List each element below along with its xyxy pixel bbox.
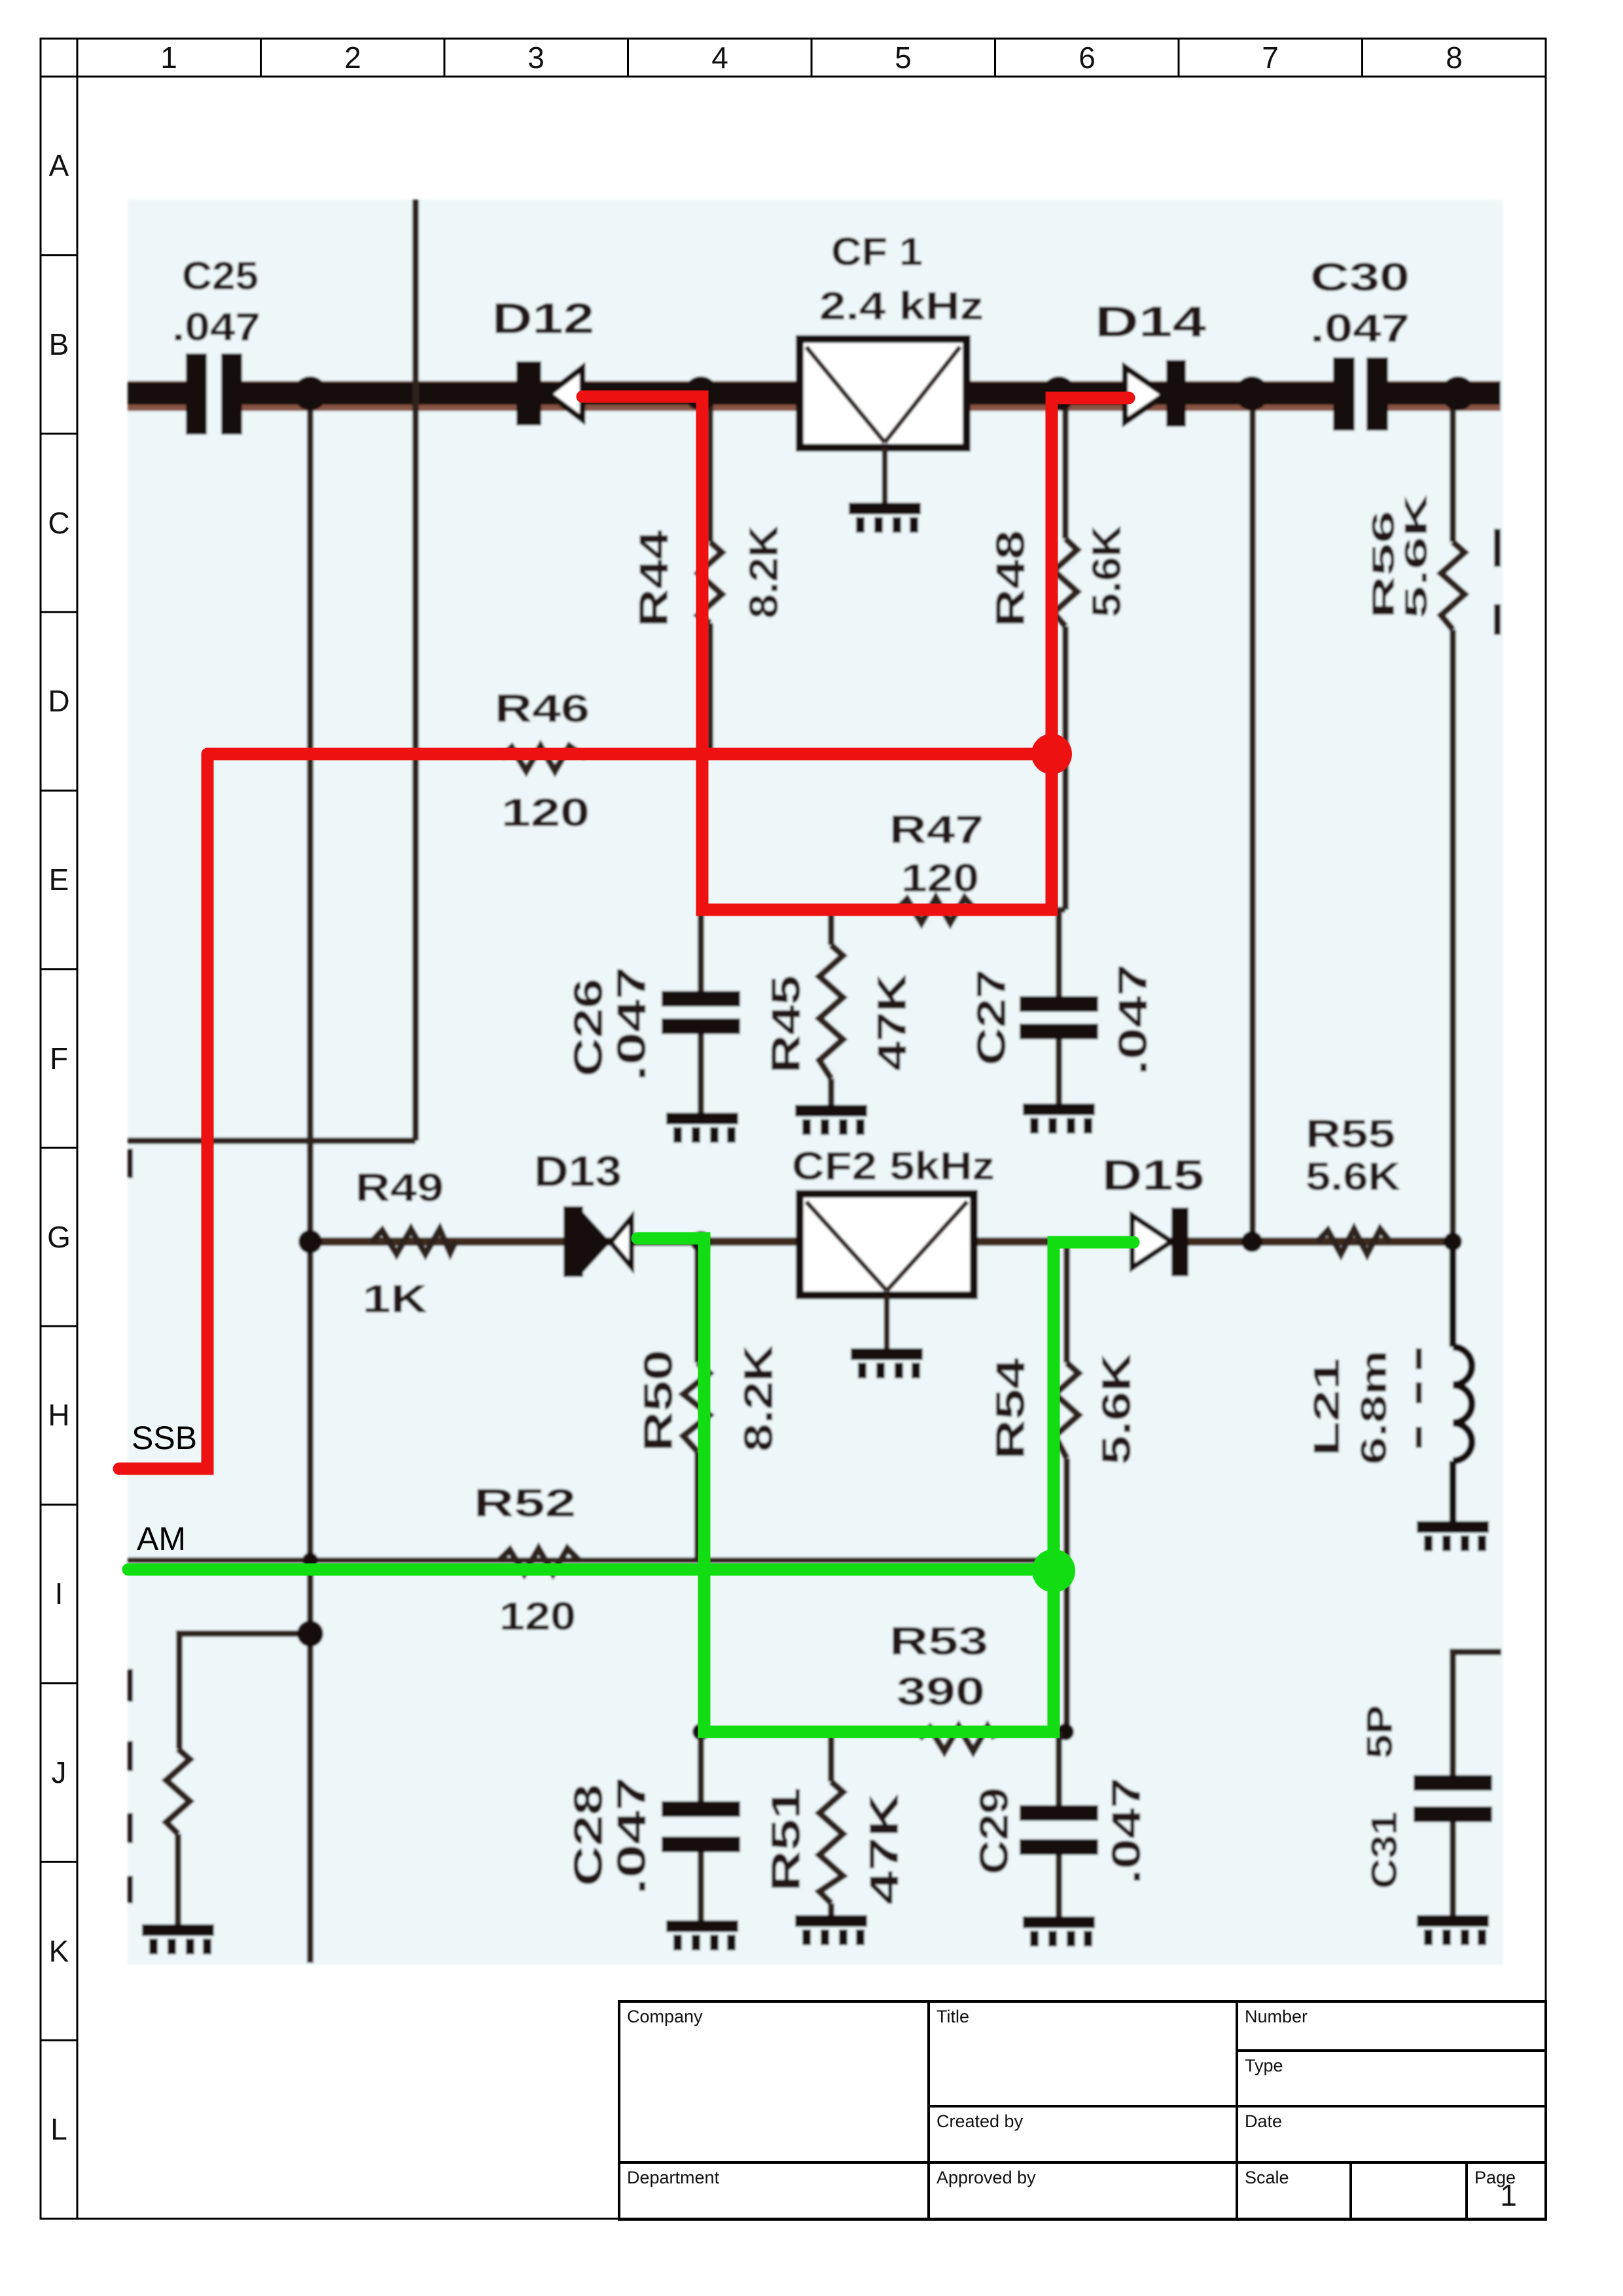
ground CF1 xyxy=(849,503,921,533)
label R49 xyxy=(355,1166,444,1321)
ground C27 xyxy=(1023,1103,1095,1134)
node SSB junction dot (red) xyxy=(1031,734,1072,774)
wire main IF signal row B xyxy=(128,382,1501,405)
diode D14 xyxy=(1125,360,1186,427)
svg-text:3: 3 xyxy=(527,41,544,75)
svg-text:F: F xyxy=(50,1041,68,1075)
wire vertical long column 2 xyxy=(412,200,419,1141)
label R54 rotated xyxy=(988,1354,1139,1465)
diode D12 xyxy=(516,361,582,425)
capacitor C26 with stems xyxy=(662,910,740,1113)
svg-text:6: 6 xyxy=(1079,41,1096,75)
svg-text:D14: D14 xyxy=(1095,297,1206,346)
resistor R55 zigzag xyxy=(1317,1229,1390,1254)
node junction main wire / D15 link xyxy=(1235,376,1269,410)
label L21 rotated xyxy=(1306,1350,1394,1465)
label R47 xyxy=(889,808,984,900)
ground R57 xyxy=(142,1924,214,1954)
node junction main wire / R56 xyxy=(1441,376,1475,410)
svg-text:R49: R49 xyxy=(355,1166,444,1210)
resistor R50 zigzag (under green) xyxy=(683,1363,709,1452)
svg-text:AM: AM xyxy=(137,1520,186,1557)
diode D13 xyxy=(563,1206,632,1277)
svg-text:5: 5 xyxy=(895,41,912,75)
svg-text:R52: R52 xyxy=(474,1481,576,1525)
svg-text:.047: .047 xyxy=(172,305,260,349)
svg-text:C25: C25 xyxy=(182,254,259,298)
svg-text:C30: C30 xyxy=(1310,255,1410,299)
ground L21 xyxy=(1417,1521,1489,1551)
svg-text:L: L xyxy=(50,2112,67,2146)
svg-text:R56: R56 xyxy=(1366,511,1401,619)
svg-text:.047: .047 xyxy=(609,967,654,1081)
label R56 rotated xyxy=(1366,493,1434,619)
svg-text:L21: L21 xyxy=(1306,1358,1347,1456)
label R45 rotated xyxy=(764,974,915,1073)
inductor L21 xyxy=(1453,1242,1472,1522)
resistor R53 zigzag (under green) xyxy=(919,1727,995,1751)
wire vertical column 1 switch line xyxy=(307,393,313,1963)
wire AM highlight loop (green) xyxy=(637,1238,1133,1732)
node AM junction dot (green) xyxy=(1032,1549,1075,1592)
svg-text:120: 120 xyxy=(901,856,979,900)
label R50 rotated xyxy=(636,1345,781,1452)
svg-text:1: 1 xyxy=(160,41,177,75)
ground C31 xyxy=(1417,1915,1489,1945)
column ticks xyxy=(260,39,262,77)
svg-text:47K: 47K xyxy=(870,974,915,1071)
node junction row G / D15 xyxy=(1241,1231,1262,1252)
svg-text:5.6K: 5.6K xyxy=(1094,1354,1139,1465)
node junction R53 wire / C28 xyxy=(692,1723,709,1740)
resistor R46 zigzag (under red) xyxy=(501,746,586,771)
svg-text:SSB: SSB xyxy=(132,1420,197,1456)
svg-text:D13: D13 xyxy=(534,1147,622,1195)
svg-text:8.2K: 8.2K xyxy=(741,526,787,619)
svg-text:C31: C31 xyxy=(1363,1812,1404,1889)
wire R53 row horizontal (under green) xyxy=(701,1729,1067,1735)
svg-text:H: H xyxy=(48,1398,69,1432)
wire R57 to ground xyxy=(175,1834,181,1924)
svg-text:D12: D12 xyxy=(492,294,594,342)
capacitor C28 with stems xyxy=(662,1732,740,1922)
svg-text:C26: C26 xyxy=(566,978,611,1077)
ground R51 xyxy=(795,1915,867,1945)
svg-text:G: G xyxy=(47,1220,71,1254)
resistor R44 zigzag (under red) xyxy=(698,542,722,623)
svg-text:R47: R47 xyxy=(889,808,984,852)
wire R54 branch upper xyxy=(1063,1242,1070,1363)
wire bottom-left L link xyxy=(179,1634,310,1749)
title block labels xyxy=(627,2007,1516,2187)
svg-text:47K: 47K xyxy=(862,1793,907,1905)
node junction R53 wire / C29 xyxy=(1057,1723,1074,1740)
svg-text:Approved by: Approved by xyxy=(936,2168,1036,2187)
resistor R57 zigzag xyxy=(166,1749,190,1834)
svg-text:1: 1 xyxy=(1500,2178,1517,2212)
svg-text:R46: R46 xyxy=(495,687,590,730)
svg-text:5P: 5P xyxy=(1359,1705,1400,1759)
capacitor C25 xyxy=(186,352,242,436)
svg-text:120: 120 xyxy=(499,1594,576,1638)
wire R50 branch upper xyxy=(694,1242,701,1363)
svg-text:R51: R51 xyxy=(764,1787,809,1892)
capacitor C27 with stems xyxy=(1020,910,1098,1103)
capacitor C31 with stub and stems xyxy=(1414,1652,1501,1916)
resistor R49 zigzag xyxy=(372,1229,455,1254)
svg-text:K: K xyxy=(49,1934,69,1968)
node junction main wire / R48 xyxy=(1042,376,1076,410)
scan background xyxy=(128,200,1503,1965)
resistor R47 zigzag (under red) xyxy=(897,898,975,923)
svg-text:5.6K: 5.6K xyxy=(1084,526,1130,617)
row label column line xyxy=(77,39,79,2219)
svg-text:CF 1: CF 1 xyxy=(831,230,923,274)
svg-text:A: A xyxy=(49,149,69,183)
svg-text:.047: .047 xyxy=(1111,964,1156,1075)
svg-text:Company: Company xyxy=(627,2007,703,2026)
label C25 xyxy=(172,254,260,349)
ceramic filter CF1 body xyxy=(800,339,967,504)
node junction AM wire / switch line xyxy=(302,1552,318,1568)
label C29 rotated xyxy=(972,1778,1149,1884)
svg-text:R55: R55 xyxy=(1306,1112,1395,1156)
wire R54 branch lower xyxy=(1063,1458,1070,1732)
svg-text:8: 8 xyxy=(1446,41,1463,75)
capacitor C30 xyxy=(1333,356,1388,432)
svg-text:D15: D15 xyxy=(1102,1151,1204,1199)
wire SSB net horizontal (under red) xyxy=(207,751,1065,757)
svg-text:120: 120 xyxy=(501,791,590,834)
title block xyxy=(619,2001,1546,2219)
svg-text:Department: Department xyxy=(627,2168,720,2187)
wire AM highlight horizontal (green) xyxy=(128,1564,1054,1576)
svg-text:D: D xyxy=(48,684,69,718)
svg-text:.047: .047 xyxy=(1310,306,1410,350)
svg-text:R54: R54 xyxy=(988,1357,1033,1460)
svg-text:B: B xyxy=(49,327,69,361)
wire R50 branch lower xyxy=(694,1452,701,1560)
svg-text:6.8m: 6.8m xyxy=(1353,1350,1394,1465)
svg-text:R45: R45 xyxy=(764,975,809,1073)
label R46 xyxy=(495,687,590,834)
svg-text:2.4 kHz: 2.4 kHz xyxy=(819,284,984,328)
wire vertical D14-D15 link xyxy=(1249,393,1256,1240)
svg-text:J: J xyxy=(52,1755,67,1789)
label R44 rotated xyxy=(632,526,787,627)
wire vertical C30-R55 link lower xyxy=(1450,630,1456,1240)
inductor L21 core dashes xyxy=(1416,1348,1422,1448)
svg-text:390: 390 xyxy=(897,1670,985,1713)
label C26 rotated xyxy=(566,967,654,1081)
node junction main wire / R44 xyxy=(684,376,718,410)
wire R44 branch upper xyxy=(707,393,713,542)
resistor R54 zigzag (under green) xyxy=(1055,1363,1079,1458)
label CF1 xyxy=(819,230,984,328)
svg-text:C: C xyxy=(48,506,69,540)
svg-text:I: I xyxy=(55,1577,63,1611)
svg-text:5.6K: 5.6K xyxy=(1306,1155,1400,1198)
svg-text:Title: Title xyxy=(936,2007,969,2026)
ground CF2 xyxy=(851,1348,923,1378)
ground C28 xyxy=(666,1920,738,1950)
ground C29 xyxy=(1023,1916,1095,1946)
svg-text:R50: R50 xyxy=(636,1350,681,1452)
wire AM net horizontal (under green) xyxy=(128,1558,1067,1564)
svg-text:8.2K: 8.2K xyxy=(736,1345,781,1452)
label R48 rotated xyxy=(988,526,1130,627)
wire R48 branch lower xyxy=(1062,626,1069,910)
svg-text:.047: .047 xyxy=(1104,1778,1149,1884)
svg-text:C29: C29 xyxy=(972,1787,1017,1874)
wire row G AM filter path xyxy=(310,1238,1453,1246)
svg-text:Created by: Created by xyxy=(936,2111,1024,2131)
svg-text:Date: Date xyxy=(1245,2111,1282,2131)
wire SSB highlight horizontal (red) xyxy=(207,748,1052,761)
resistor R48 zigzag (under red) xyxy=(1054,539,1077,626)
label R55 xyxy=(1306,1112,1400,1198)
label C27 rotated xyxy=(969,964,1156,1075)
svg-text:R53: R53 xyxy=(889,1619,988,1663)
row ticks xyxy=(41,254,77,256)
svg-text:C27: C27 xyxy=(969,969,1014,1066)
resistor R56 zigzag xyxy=(1441,542,1465,630)
ground C26 xyxy=(666,1113,738,1143)
diode D15 xyxy=(1132,1208,1188,1276)
svg-text:R44: R44 xyxy=(632,529,677,627)
node junction row G / R55-L21 xyxy=(1444,1232,1462,1251)
capacitor C29 with stems xyxy=(1020,1732,1098,1916)
wire horizontal row F stub xyxy=(128,1138,416,1144)
svg-text:Scale: Scale xyxy=(1245,2168,1289,2187)
wire R47 row horizontal (under red) xyxy=(701,907,1065,913)
wire R48 branch upper xyxy=(1062,393,1069,539)
column header row line xyxy=(41,76,1546,78)
label R53 xyxy=(889,1619,988,1713)
svg-text:7: 7 xyxy=(1262,41,1279,75)
svg-text:Number: Number xyxy=(1245,2007,1308,2026)
node junction switch line / stub xyxy=(297,1621,323,1647)
node junction row G / R50 xyxy=(690,1231,711,1252)
svg-text:4: 4 xyxy=(711,41,728,75)
label C28 rotated xyxy=(566,1777,654,1895)
resistor R45 with stems xyxy=(819,910,843,1106)
label R51 rotated xyxy=(764,1787,907,1905)
label C31 rotated xyxy=(1359,1705,1404,1889)
scan edge artifacts left xyxy=(128,1149,133,1903)
ground R45 xyxy=(795,1105,867,1135)
svg-text:C28: C28 xyxy=(566,1784,611,1886)
svg-text:2: 2 xyxy=(344,41,361,75)
svg-text:.047: .047 xyxy=(609,1777,654,1895)
scanned schematic layer xyxy=(128,200,1503,1965)
svg-text:CF2 5kHz: CF2 5kHz xyxy=(792,1144,995,1188)
scan edge artifacts right xyxy=(1494,529,1501,635)
wire R44 branch lower xyxy=(707,623,713,754)
resistor R52 zigzag (under green) xyxy=(499,1549,579,1573)
wire main IF signal row B brown fringe xyxy=(128,381,1501,411)
svg-text:1K: 1K xyxy=(363,1277,427,1321)
node junction row G / switch line xyxy=(298,1230,322,1253)
wire SSB highlight loop (red) xyxy=(582,397,1129,910)
svg-text:5.6K: 5.6K xyxy=(1399,493,1434,619)
highlight layer xyxy=(119,397,1133,1732)
svg-text:R48: R48 xyxy=(988,530,1033,627)
wire vertical C30-R55 link upper xyxy=(1450,393,1456,542)
svg-text:Type: Type xyxy=(1245,2056,1283,2075)
ceramic filter CF2 body xyxy=(800,1194,974,1350)
label R52 xyxy=(474,1481,576,1638)
resistor R51 with stems xyxy=(819,1732,843,1916)
node junction main wire / switch line xyxy=(293,376,327,410)
label C30 xyxy=(1310,255,1410,350)
svg-text:E: E xyxy=(49,863,69,897)
wire SSB stub (red) xyxy=(119,754,207,1469)
